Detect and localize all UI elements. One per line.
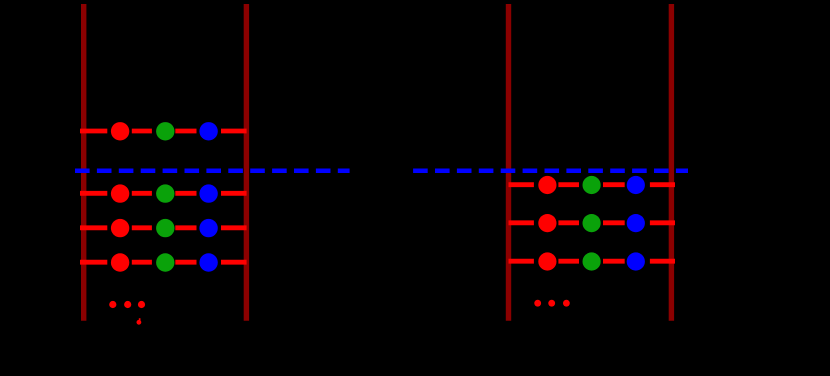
left well level 4 red atom [111,253,129,271]
small red comma mark below left ellipsis [137,318,142,324]
right well level 1 red atom [538,176,556,194]
left well level 1 green atom [156,122,174,140]
left well level 2 red atom [111,184,129,202]
right well ellipsis dot 1 [534,300,541,307]
right well left wall [506,4,511,321]
right well level 1 green atom [583,176,601,194]
Fermi level dashed line left segment [75,168,350,173]
right well right wall [669,4,674,321]
right well energy level 1 dashes [509,182,676,187]
left well ellipsis dot 1 [109,301,116,308]
right well level 1 blue atom [627,176,645,194]
left well level 1 red atom [111,122,129,140]
left well level 4 green atom [156,253,174,271]
right well energy level 3 dashes [509,259,676,264]
right well level 3 red atom [538,252,556,270]
left well level 2 blue atom [199,184,217,202]
left well energy level 4 dashes [80,260,247,265]
right well level 2 red atom [538,214,556,232]
left well level 1 blue atom [199,122,217,140]
left well level 3 blue atom [199,219,217,237]
right well ellipsis dot 3 [563,300,570,307]
right well level 3 green atom [583,252,601,270]
left well level 2 green atom [156,184,174,202]
left well level 4 blue atom [199,253,217,271]
left well energy level 1 dashes [80,129,247,134]
Fermi level dashed line right segment [413,168,688,173]
left well right wall [244,4,249,321]
left well left wall [81,4,86,321]
right well level 2 green atom [583,214,601,232]
left well ellipsis dot 2 [124,301,131,308]
left well ellipsis dot 3 [138,301,145,308]
left well energy level 2 dashes [80,191,247,196]
right well energy level 2 dashes [509,220,676,225]
left well energy level 3 dashes [80,225,247,230]
right well level 2 blue atom [627,214,645,232]
left well level 3 green atom [156,219,174,237]
right well ellipsis dot 2 [548,300,555,307]
left well level 3 red atom [111,219,129,237]
right well level 3 blue atom [627,252,645,270]
